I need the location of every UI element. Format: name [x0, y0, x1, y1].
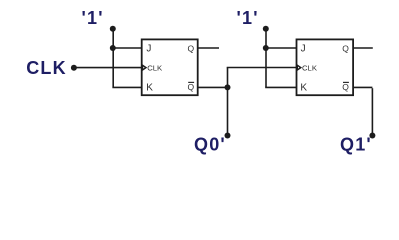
svg-text:Q: Q [187, 43, 194, 53]
wire '1' net of U2 vertical [265, 29, 267, 88]
svg-text:Q: Q [342, 43, 349, 53]
svg-text:K: K [146, 83, 153, 94]
wire '1' net of U1 vertical [112, 29, 114, 88]
wire Q' of U1 to node A [198, 86, 228, 88]
node junction J of U1 [110, 45, 116, 51]
wire node A to CLK of U2 [227, 67, 297, 69]
svg-text:K: K [300, 83, 307, 94]
clock wedge U1 [143, 65, 147, 70]
node junction J of U2 [263, 45, 269, 51]
node dot Q1' terminal [369, 133, 375, 139]
wire '1' net to K of U2 [265, 86, 296, 88]
wire Q' of U2 right [353, 86, 372, 88]
svg-text:J: J [301, 44, 306, 55]
wire Q output stub of U1 [198, 47, 219, 49]
wire node A down to Q0' [227, 87, 229, 135]
wire '1' net to K of U1 [112, 86, 141, 88]
wire CLK input [74, 67, 141, 69]
pin Q' overbar U1 [188, 81, 194, 83]
wire node A up [227, 68, 229, 89]
svg-text:CLK: CLK [147, 64, 163, 73]
svg-text:'1': '1' [237, 8, 259, 28]
node junction A [225, 84, 231, 90]
wire '1' net to J of U1 [113, 47, 141, 49]
wire '1' net to J of U2 [266, 47, 296, 49]
svg-text:Q0': Q0' [194, 135, 226, 155]
flip-flop U1 box [142, 39, 198, 95]
clock wedge U2 [297, 65, 301, 70]
flip-flop U2 box [297, 39, 354, 95]
svg-text:CLK: CLK [26, 58, 67, 78]
svg-text:J: J [146, 44, 151, 55]
node dot CLK terminal [71, 65, 77, 71]
wire Q output stub of U2 [353, 47, 373, 49]
node dot '1' terminal U1 [110, 26, 116, 32]
wire Q' of U2 down to Q1' [371, 88, 373, 135]
node dot '1' terminal U2 [263, 26, 269, 32]
node dot Q0' terminal [225, 133, 231, 139]
svg-text:Q: Q [342, 82, 349, 92]
svg-text:Q1': Q1' [340, 135, 372, 155]
svg-text:CLK: CLK [302, 64, 318, 73]
svg-text:Q: Q [187, 82, 194, 92]
pin Q' overbar U2 [343, 81, 349, 83]
svg-text:'1': '1' [82, 8, 104, 28]
